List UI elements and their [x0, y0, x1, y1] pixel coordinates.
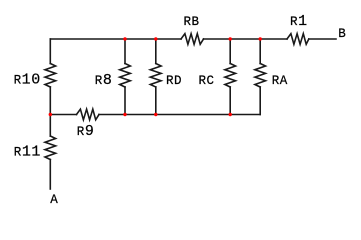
- wire left vertical below bottom wire: [49, 115, 51, 137]
- wire RA top lead: [259, 39, 261, 64]
- svg-text:RB: RB: [184, 15, 200, 29]
- svg-text:RC: RC: [199, 74, 215, 88]
- wire RC top lead: [229, 39, 231, 64]
- resistor RA: [255, 64, 266, 88]
- junction dot left bottom: [49, 113, 52, 116]
- junction dot RC bottom: [229, 113, 232, 116]
- wire R8 top lead: [124, 39, 126, 64]
- wire bottom horizontal segment: [99, 114, 260, 116]
- resistor RB: [181, 34, 204, 45]
- wire RD bottom lead: [155, 87, 157, 115]
- junction dot RC top: [229, 37, 232, 40]
- svg-text:RA: RA: [272, 74, 288, 88]
- wire top-middle segment: [204, 38, 288, 40]
- svg-text:RD: RD: [166, 74, 182, 88]
- resistor R1: [287, 34, 309, 45]
- wire bottom-left segment: [50, 114, 76, 116]
- wire RA bottom lead: [259, 87, 261, 115]
- svg-text:R10: R10: [14, 72, 41, 89]
- junction dot R8 bottom: [123, 113, 126, 116]
- resistor R11: [45, 136, 56, 160]
- resistor R8: [120, 64, 131, 88]
- wire top-left horizontal segment: [50, 38, 181, 40]
- junction dot R8 top: [123, 37, 126, 40]
- wire left vertical upper: [49, 39, 51, 64]
- resistor R10: [45, 64, 56, 88]
- resistor RC: [225, 64, 236, 88]
- svg-text:B: B: [338, 27, 346, 41]
- resistor R9: [77, 109, 100, 120]
- svg-text:A: A: [50, 193, 58, 207]
- svg-text:R9: R9: [77, 123, 95, 140]
- wire to node A: [49, 160, 51, 190]
- wire R8 bottom lead: [124, 87, 126, 115]
- svg-text:R11: R11: [14, 144, 41, 161]
- svg-text:R8: R8: [95, 72, 113, 89]
- wire RC bottom lead: [229, 87, 231, 115]
- resistor RD: [150, 64, 161, 88]
- junction dot RA top: [259, 37, 262, 40]
- wire RD top lead: [155, 39, 157, 64]
- junction dot RD top: [154, 37, 157, 40]
- junction dot RD bottom: [154, 113, 157, 116]
- wire to node B: [309, 38, 336, 40]
- wire R10 bottom lead: [49, 87, 51, 115]
- svg-text:R1: R1: [290, 13, 308, 30]
